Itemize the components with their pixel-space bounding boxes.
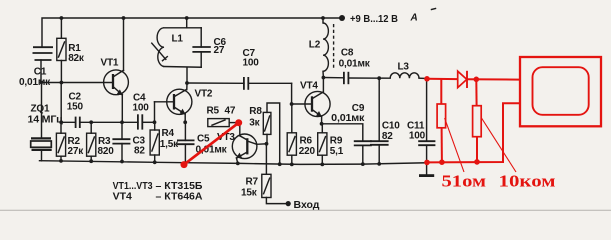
svg-text:+9 В...12 В: +9 В...12 В: [350, 13, 398, 25]
node base/C1/ZQ1: [40, 81, 43, 84]
resistor R3: [87, 120, 115, 161]
node C7 corner / VT4 base / R6: [292, 83, 311, 104]
note transistor types: [113, 180, 203, 203]
capacitor C2: [61, 92, 138, 128]
svg-text:А: А: [410, 13, 418, 24]
svg-text:820: 820: [98, 146, 115, 157]
diode VD: [458, 71, 467, 88]
capacitor C8: [339, 48, 391, 85]
svg-text:R7: R7: [246, 177, 259, 188]
svg-text:– КТ646А: – КТ646А: [156, 191, 203, 203]
capacitor C9: [322, 103, 372, 164]
svg-text:100: 100: [133, 103, 150, 114]
transistor VT1: [101, 18, 129, 122]
svg-text:L1: L1: [172, 33, 184, 44]
capacitor C7: [243, 48, 292, 90]
inductor L3: [390, 62, 427, 79]
capacitor C5: [177, 122, 228, 163]
wire rail to tank: [186, 18, 188, 28]
svg-text:5,1: 5,1: [330, 146, 344, 157]
svg-text:VT2: VT2: [195, 88, 213, 99]
svg-text:VT4: VT4: [113, 191, 132, 203]
resistor R5: [207, 106, 240, 127]
transistor VT2: [155, 83, 213, 122]
inductor L2: [309, 16, 334, 77]
wire tank bottom: [164, 66, 201, 69]
node diode/R10k: [474, 77, 480, 83]
svg-text:47: 47: [225, 106, 236, 117]
svg-text:100: 100: [243, 58, 260, 69]
svg-text:220: 220: [299, 146, 316, 157]
capacitor C1: [19, 47, 53, 88]
resistor R9: [318, 124, 344, 165]
red wire bottom rail: [427, 103, 520, 162]
svg-text:R8: R8: [249, 106, 262, 117]
svg-text:R6: R6: [300, 136, 313, 147]
svg-text:82: 82: [382, 131, 393, 142]
wire top +V rail: [42, 18, 342, 47]
svg-text:1,5к: 1,5к: [160, 139, 179, 150]
red wire diode to scope: [467, 78, 520, 80]
svg-text:ZQ1: ZQ1: [31, 104, 50, 115]
wire ground rail: [40, 161, 428, 165]
svg-text:L2: L2: [309, 40, 321, 51]
svg-text:R5: R5: [207, 106, 220, 117]
svg-text:L3: L3: [398, 62, 410, 73]
resistor R4: [150, 122, 179, 162]
resistor R6: [287, 104, 315, 164]
svg-text:VT4: VT4: [300, 81, 318, 92]
capacitor C3: [112, 120, 145, 161]
artifact dash: [432, 9, 436, 10]
transistor VT3: [217, 123, 267, 164]
svg-text:Вход: Вход: [294, 199, 320, 211]
svg-text:0,01мк: 0,01мк: [339, 59, 371, 70]
terminal +V: [339, 15, 345, 21]
svg-text:R4: R4: [162, 128, 175, 139]
wire VT1 base line: [41, 82, 112, 84]
resistor R1: [57, 18, 85, 83]
capacitor C4: [133, 93, 155, 130]
ground: [419, 174, 434, 177]
svg-text:C5: C5: [197, 133, 210, 144]
node C4/R4/VT2 base: [153, 120, 157, 124]
capacitor C11: [407, 79, 435, 175]
pointer 10ком: [482, 118, 517, 172]
svg-text:27к: 27к: [68, 146, 85, 157]
svg-text:3к: 3к: [249, 117, 260, 128]
svg-text:C8: C8: [341, 48, 354, 59]
inductor L1: [152, 28, 184, 67]
svg-text:27: 27: [214, 45, 225, 56]
scan artifact line bottom: [0, 209, 611, 211]
resistor 51ом: [437, 79, 446, 162]
oscilloscope: [520, 57, 601, 126]
svg-text:82к: 82к: [68, 53, 85, 64]
red wire probe top: [427, 78, 458, 80]
wire tank tee to VT2 collector node: [186, 67, 188, 83]
svg-text:150: 150: [67, 102, 84, 113]
node red tap: [424, 76, 430, 82]
node rail / L1 tank feed: [185, 16, 189, 20]
svg-text:15к: 15к: [241, 187, 258, 198]
svg-text:51ом: 51ом: [442, 172, 487, 191]
resistor 10ком: [473, 79, 482, 162]
crystal ZQ1: [28, 83, 64, 161]
capacitor C10: [370, 78, 400, 164]
red overlay: diagonal pointer line: [181, 119, 243, 168]
svg-text:82: 82: [134, 145, 145, 156]
capacitor C6: [192, 28, 226, 67]
resistor R2: [56, 122, 84, 161]
svg-text:R9: R9: [330, 136, 343, 147]
wire VT4 collector node to output: [323, 77, 344, 79]
wire tank top: [164, 27, 201, 29]
svg-text:VT1: VT1: [101, 58, 119, 69]
svg-text:10ком: 10ком: [499, 172, 557, 191]
terminal input: [286, 201, 291, 206]
svg-text:100: 100: [409, 130, 426, 141]
resistor R8: [249, 103, 279, 164]
pointer 51ом: [445, 118, 464, 172]
wire C1 to base node: [40, 60, 42, 83]
resistor R7: [241, 144, 286, 204]
svg-text:14 МГц: 14 МГц: [28, 114, 64, 125]
transistor VT4: [300, 77, 330, 124]
svg-text:0,01мк: 0,01мк: [331, 113, 365, 124]
wire mid line to C7: [187, 82, 244, 84]
wire base to divider node: [60, 83, 62, 123]
